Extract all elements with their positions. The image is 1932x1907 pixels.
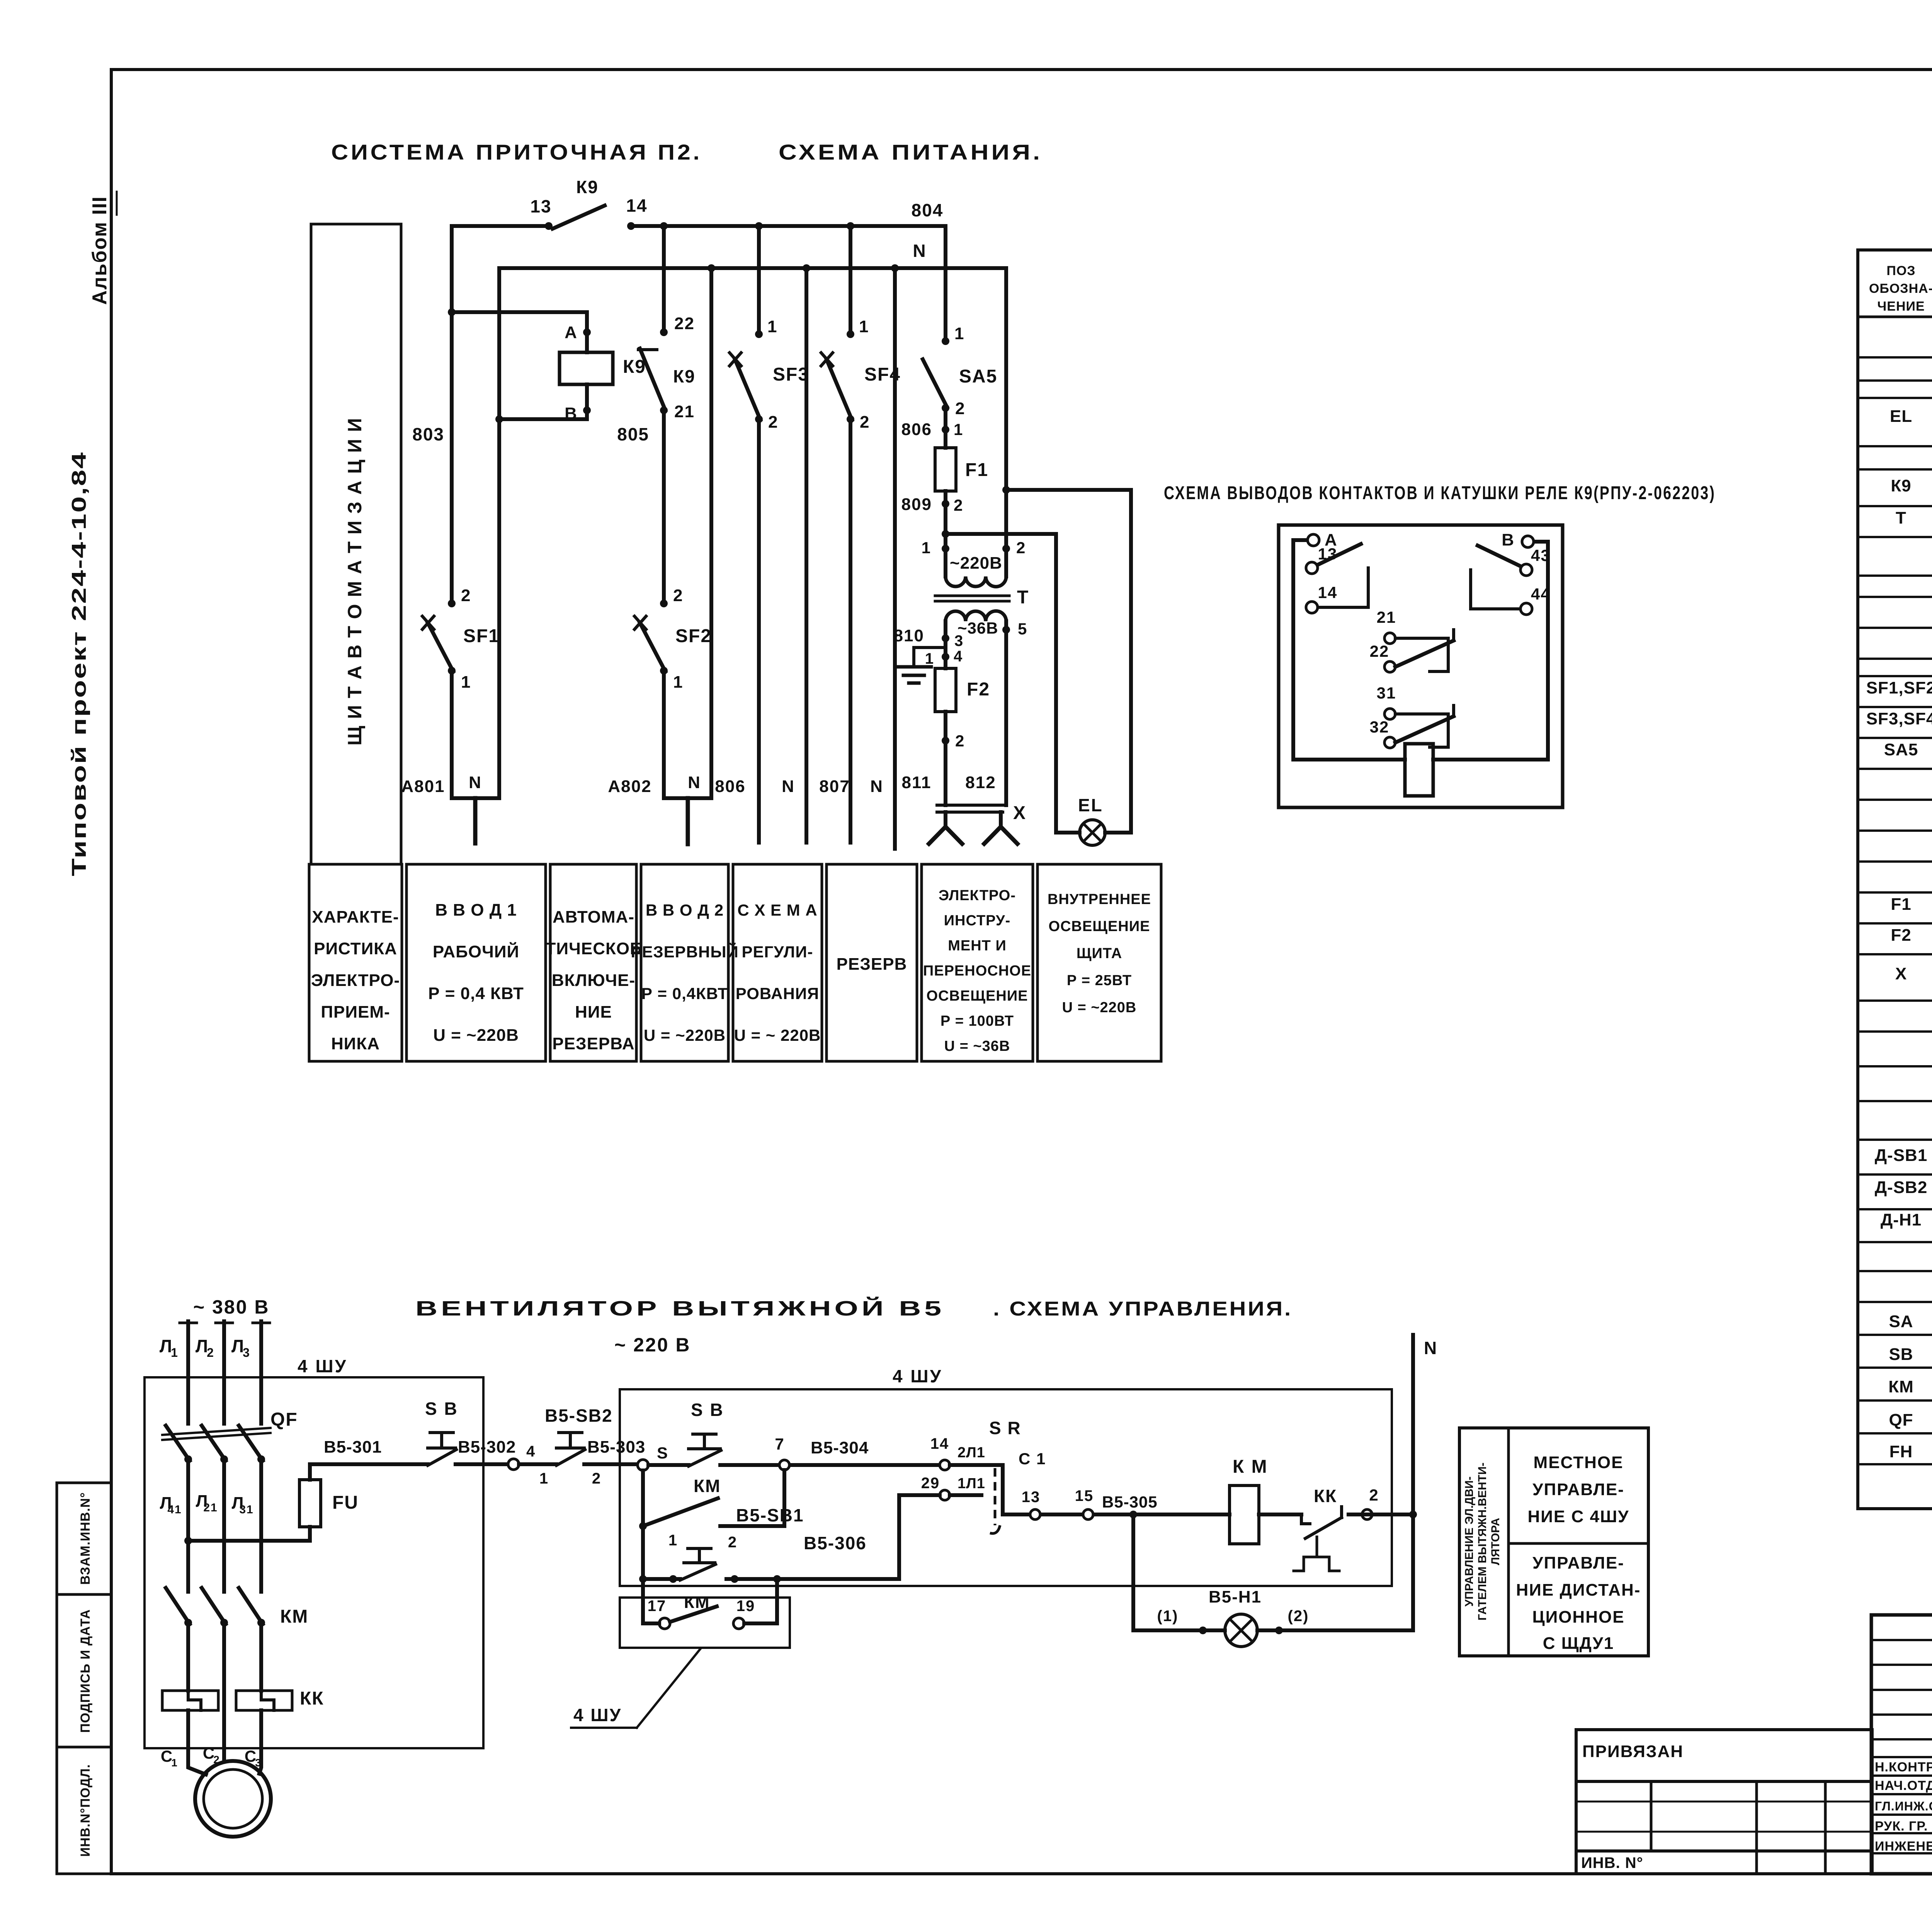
socket X left prong bbox=[944, 812, 947, 827]
svg-text:Типовой проект 224-4-10,84: Типовой проект 224-4-10,84 bbox=[68, 451, 90, 876]
svg-text:РАБОЧИЙ: РАБОЧИЙ bbox=[433, 942, 519, 961]
wire phase L1 top tick bbox=[180, 1322, 197, 1324]
svg-text:2: 2 bbox=[673, 586, 683, 605]
small box KM17-19 bbox=[620, 1598, 790, 1648]
svg-text:ИНСТРУ-: ИНСТРУ- bbox=[944, 913, 1011, 929]
node T primary 2 bbox=[1002, 545, 1010, 552]
wire SA5 to F1 bbox=[944, 408, 947, 448]
stub circuit1 drop bbox=[473, 798, 478, 843]
svg-text:ВЗАМ.ИНВ.N°: ВЗАМ.ИНВ.N° bbox=[78, 1492, 93, 1585]
wire K9 coil feed bbox=[452, 312, 587, 352]
svg-text:21: 21 bbox=[1377, 608, 1396, 626]
svg-text:К М: К М bbox=[1233, 1457, 1268, 1477]
svg-text:41: 41 bbox=[167, 1503, 182, 1516]
svg-text:N: N bbox=[688, 773, 701, 792]
svg-text:ПРИВЯЗАН: ПРИВЯЗАН bbox=[1582, 1742, 1684, 1761]
wire coil to KK bbox=[1259, 1513, 1301, 1516]
svg-text:806: 806 bbox=[901, 420, 932, 439]
svg-text:УПРАВЛЕ-: УПРАВЛЕ- bbox=[1532, 1553, 1624, 1572]
svg-text:МЕСТНОЕ: МЕСТНОЕ bbox=[1534, 1453, 1624, 1472]
svg-text:В5-306: В5-306 bbox=[804, 1533, 867, 1553]
terminal 43 bbox=[1520, 564, 1532, 576]
svg-text:Щ И Т А В Т О М А Т И З А Ц: Щ И Т А В Т О М А Т И З А Ц И И bbox=[344, 417, 366, 746]
junction top bus 805 bbox=[660, 222, 668, 230]
transformer T primary wire right bbox=[1004, 549, 1008, 576]
wire F1 to T bbox=[944, 491, 947, 549]
svg-text:806: 806 bbox=[715, 777, 745, 796]
svg-text:В: В bbox=[1502, 530, 1515, 549]
svg-text:807: 807 bbox=[819, 777, 850, 796]
svg-text:1: 1 bbox=[673, 673, 683, 692]
wire SA5 upper bbox=[944, 226, 947, 341]
svg-text:С 1: С 1 bbox=[1019, 1450, 1046, 1468]
wire C2 drop bbox=[222, 1719, 226, 1762]
svg-text:1: 1 bbox=[171, 1757, 178, 1769]
contact K9 43-44 movable bbox=[1478, 546, 1521, 566]
contact SF4 arm bbox=[827, 359, 852, 420]
terminal 21 bbox=[1384, 633, 1395, 644]
svg-text:РУК. ГР.: РУК. ГР. bbox=[1875, 1819, 1928, 1834]
socket X right prong bbox=[999, 812, 1003, 827]
svg-text:В5-SВ2: В5-SВ2 bbox=[545, 1406, 613, 1426]
thermal contact KK step bbox=[1301, 1514, 1310, 1524]
svg-text:РЕЗЕРВ: РЕЗЕРВ bbox=[837, 955, 907, 974]
svg-text:SА: SА bbox=[1889, 1312, 1913, 1331]
terminal 13 bbox=[1306, 562, 1318, 574]
wire ground branch bbox=[914, 648, 946, 665]
contact SA5 arm bbox=[923, 359, 947, 407]
wire K9 coil return bbox=[499, 384, 587, 419]
wire SF4 lower bbox=[849, 419, 852, 843]
svg-text:С ЩДУ1: С ЩДУ1 bbox=[1543, 1634, 1614, 1653]
wire lamp right drop bbox=[1006, 490, 1131, 833]
svg-text:Т: Т bbox=[1896, 508, 1906, 527]
svg-text:SA5: SA5 bbox=[959, 366, 997, 387]
parts table header line bbox=[1858, 316, 1932, 318]
wire line B bbox=[1003, 1513, 1230, 1516]
lamp EL bbox=[1080, 820, 1105, 845]
svg-text:SВ: SВ bbox=[1889, 1345, 1913, 1364]
svg-text:811: 811 bbox=[902, 773, 932, 792]
characteristics cell 1 bbox=[309, 864, 402, 1061]
svg-text:13: 13 bbox=[1022, 1489, 1041, 1506]
svg-text:АВТОМА-: АВТОМА- bbox=[553, 908, 634, 926]
wire 17 stub bbox=[643, 1621, 659, 1625]
svg-text:1: 1 bbox=[954, 420, 963, 439]
svg-text:В5-303: В5-303 bbox=[587, 1438, 645, 1457]
svg-text:. СХЕМА УПРАВЛЕНИЯ.: . СХЕМА УПРАВЛЕНИЯ. bbox=[993, 1298, 1293, 1320]
svg-text:Р = 100ВТ: Р = 100ВТ bbox=[940, 1013, 1014, 1029]
svg-text:А801: А801 bbox=[401, 777, 445, 796]
svg-text:ТИЧЕСКОЕ: ТИЧЕСКОЕ bbox=[546, 939, 642, 958]
thermal relay KK heater 1 bbox=[162, 1691, 218, 1710]
wire top bus left segment bbox=[452, 224, 549, 228]
enclosure box ШУ power bbox=[145, 1377, 483, 1748]
svg-text:ЧЕНИЕ: ЧЕНИЕ bbox=[1877, 299, 1925, 314]
svg-text:УПРАВЛЕ-: УПРАВЛЕ- bbox=[1532, 1480, 1624, 1499]
svg-text:U = ~ 220В: U = ~ 220В bbox=[734, 1026, 821, 1044]
svg-text:QF: QF bbox=[1889, 1411, 1913, 1429]
svg-text:НИКА: НИКА bbox=[331, 1034, 380, 1053]
svg-text:S В: S В bbox=[425, 1399, 458, 1419]
svg-text:2: 2 bbox=[1369, 1486, 1379, 1504]
svg-text:ОСВЕЩЕНИЕ: ОСВЕЩЕНИЕ bbox=[927, 988, 1028, 1004]
leader 4ШУ line bbox=[637, 1648, 701, 1728]
svg-text:А802: А802 bbox=[608, 777, 651, 796]
contactor KM arm1 bbox=[166, 1588, 190, 1624]
binding row line 1 bbox=[1576, 1780, 1872, 1783]
leader 4ШУ underline bbox=[571, 1727, 637, 1729]
svg-text:К9: К9 bbox=[576, 177, 599, 197]
wire SB start to 7 bbox=[720, 1463, 945, 1467]
svg-text:SF1: SF1 bbox=[463, 626, 500, 646]
node SF2-1 bbox=[660, 667, 668, 675]
wire B5-306 bbox=[726, 1577, 899, 1581]
node SA5-2 bbox=[942, 404, 949, 412]
wire 44 bracket bbox=[1471, 570, 1521, 609]
svg-text:РИСТИКА: РИСТИКА bbox=[314, 939, 397, 958]
wire secondary right bbox=[1004, 621, 1008, 805]
node T primary 1 bbox=[942, 545, 949, 552]
svg-text:КК: КК bbox=[300, 1688, 324, 1709]
fuse F2 bbox=[935, 668, 956, 712]
svg-text:НИЕ С 4ШУ: НИЕ С 4ШУ bbox=[1527, 1507, 1629, 1526]
svg-text:4 ШУ: 4 ШУ bbox=[893, 1366, 942, 1386]
contact SF3 cross b bbox=[730, 353, 741, 366]
relay coil K9 bbox=[560, 352, 613, 384]
wire 21 bracket bbox=[1395, 638, 1448, 671]
parts table row lines bbox=[1858, 357, 1932, 1464]
node SA5-1 bbox=[942, 337, 949, 345]
svg-text:ВКЛЮЧЕ-: ВКЛЮЧЕ- bbox=[552, 971, 635, 990]
node QF out1 bbox=[184, 1455, 192, 1463]
relay K9 coil rect bbox=[1405, 744, 1433, 796]
terminal B of K9 coil bbox=[583, 406, 591, 414]
svg-text:5: 5 bbox=[1018, 620, 1027, 638]
caption table outer bbox=[1459, 1428, 1648, 1656]
svg-text:1Л1: 1Л1 bbox=[957, 1475, 985, 1492]
terminal circle 13 bbox=[1030, 1509, 1040, 1519]
junction N bus a bbox=[707, 264, 715, 272]
left margin cell Подпись и дата bbox=[57, 1594, 111, 1747]
svg-text:31: 31 bbox=[1377, 684, 1396, 702]
transformer T secondary humps bbox=[946, 611, 1006, 621]
wire phase L2 top tick bbox=[216, 1322, 233, 1324]
contact SF2 arm bbox=[640, 623, 665, 671]
svg-text:ВНУТРЕННЕЕ: ВНУТРЕННЕЕ bbox=[1048, 891, 1151, 908]
svg-text:ЦИОННОЕ: ЦИОННОЕ bbox=[1532, 1608, 1624, 1627]
button B5-SB1 bbox=[684, 1561, 715, 1564]
svg-text:ЩИТА: ЩИТА bbox=[1077, 945, 1122, 962]
svg-text:N: N bbox=[469, 773, 482, 792]
title block name rows bbox=[1871, 1757, 1932, 1853]
node SF1-2 bbox=[448, 600, 456, 607]
stub circuit2 bbox=[664, 796, 711, 800]
svg-text:21: 21 bbox=[674, 402, 695, 421]
node 809 bbox=[942, 500, 949, 508]
contact KM aux arm bbox=[643, 1498, 718, 1526]
characteristics cell 2 bbox=[406, 864, 546, 1061]
wire 805 vertical mid bbox=[662, 410, 666, 603]
transformer T primary humps bbox=[946, 576, 1006, 587]
breaker QF arm1 bbox=[166, 1426, 190, 1461]
terminal 32 bbox=[1384, 737, 1395, 748]
svg-text:НИЕ: НИЕ bbox=[575, 1003, 612, 1021]
breaker QF arm3 bbox=[239, 1426, 263, 1461]
svg-text:U = ~220В: U = ~220В bbox=[644, 1026, 726, 1044]
wire N to T primary bbox=[1004, 268, 1008, 549]
contactor KM arm2 bbox=[202, 1588, 226, 1624]
junction N bus c bbox=[891, 264, 899, 272]
svg-text:S R: S R bbox=[989, 1418, 1021, 1438]
wire into small box bbox=[641, 1596, 645, 1623]
button SB stop bbox=[428, 1446, 456, 1450]
junction KM17 riser bbox=[773, 1575, 781, 1583]
margin note underline III bbox=[116, 192, 118, 215]
node SF4-1 bbox=[847, 330, 854, 338]
wire KK to N bbox=[1349, 1513, 1413, 1516]
panel box Щит автоматизации bbox=[311, 224, 401, 864]
svg-text:ЕL: ЕL bbox=[1890, 407, 1912, 426]
wire phase L2 low bbox=[222, 1623, 226, 1719]
svg-text:14: 14 bbox=[1318, 583, 1338, 602]
contact SF3 arm bbox=[735, 359, 760, 420]
svg-text:7: 7 bbox=[775, 1435, 784, 1453]
wire 803 vertical upper bbox=[450, 226, 454, 603]
svg-text:4: 4 bbox=[526, 1443, 536, 1460]
binding col 3 bbox=[1824, 1781, 1827, 1874]
svg-text:Альбом III: Альбом III bbox=[88, 196, 111, 305]
svg-text:4 ШУ: 4 ШУ bbox=[298, 1356, 347, 1376]
svg-text:15: 15 bbox=[1075, 1487, 1094, 1504]
wire phase L3 top tick bbox=[253, 1322, 270, 1324]
svg-text:КМ: КМ bbox=[1888, 1377, 1914, 1396]
svg-text:МЕНТ И: МЕНТ И bbox=[948, 938, 1007, 954]
svg-text:FН: FН bbox=[1889, 1442, 1913, 1461]
node SF2-2 bbox=[660, 600, 668, 607]
junction lamp right bbox=[1002, 486, 1010, 494]
svg-text:Р = 0,4КВТ: Р = 0,4КВТ bbox=[641, 984, 728, 1003]
wire N3 vertical bbox=[804, 268, 808, 843]
svg-text:Т: Т bbox=[1017, 587, 1029, 608]
binding table outer bbox=[1576, 1730, 1872, 1874]
transformer T core bbox=[935, 595, 1009, 597]
switch SR hook bbox=[990, 1525, 1000, 1533]
terminal circle 4 bbox=[508, 1459, 519, 1470]
node QF out3 bbox=[257, 1455, 265, 1463]
svg-text:44: 44 bbox=[1531, 585, 1551, 603]
svg-text:14: 14 bbox=[930, 1435, 949, 1452]
svg-text:U = ~36В: U = ~36В bbox=[944, 1038, 1010, 1054]
svg-text:2: 2 bbox=[955, 732, 965, 750]
svg-text:803: 803 bbox=[412, 424, 444, 444]
svg-text:Р = 25ВТ: Р = 25ВТ bbox=[1067, 972, 1132, 989]
svg-text:В5-SВ1: В5-SВ1 bbox=[736, 1505, 804, 1525]
terminal 17 bbox=[659, 1618, 670, 1629]
thermal element symbol bbox=[1294, 1557, 1339, 1571]
svg-text:SF3,SF4: SF3,SF4 bbox=[1866, 709, 1932, 728]
wire lamp branch horizontal left bbox=[1133, 1628, 1225, 1632]
contact K9 31-32 movable bbox=[1395, 716, 1454, 743]
contact SF4 cross a bbox=[821, 353, 833, 366]
relay K9 outline box bbox=[1279, 525, 1563, 807]
svg-text:КК: КК bbox=[1314, 1486, 1337, 1506]
terminal A bbox=[1308, 534, 1319, 546]
wire 14 bracket bbox=[1318, 568, 1368, 607]
wire 31 bracket bbox=[1395, 714, 1448, 747]
svg-text:ГАТЕЛЕМ ВЫТЯЖН.ВЕНТИ-: ГАТЕЛЕМ ВЫТЯЖН.ВЕНТИ- bbox=[1476, 1463, 1489, 1621]
wire 29 left bbox=[899, 1493, 940, 1497]
wire F2 to socket bbox=[944, 712, 947, 805]
wire 19 stub bbox=[744, 1579, 777, 1623]
svg-text:2Л1: 2Л1 bbox=[957, 1445, 985, 1461]
contactor KM arm3 bbox=[239, 1588, 263, 1624]
svg-text:Н.КОНТР.: Н.КОНТР. bbox=[1875, 1760, 1932, 1774]
contact SF1 cross a bbox=[422, 616, 434, 629]
lamp B5-H1 bbox=[1225, 1614, 1257, 1647]
svg-text:Д-Н1: Д-Н1 bbox=[1881, 1210, 1922, 1229]
terminal 31 bbox=[1384, 709, 1395, 719]
characteristics cell 3 bbox=[550, 864, 636, 1061]
wire phase L2 top bbox=[222, 1321, 226, 1424]
svg-text:13: 13 bbox=[530, 196, 551, 216]
svg-text:В В О Д 1: В В О Д 1 bbox=[435, 901, 517, 920]
wire lamp branch horizontal right bbox=[1257, 1628, 1413, 1632]
wire B5-306 riser bbox=[897, 1495, 901, 1579]
contact K9 22-21 arm bbox=[640, 348, 665, 410]
contact K9 21-22 movable bbox=[1395, 641, 1454, 667]
svg-text:В5-Н1: В5-Н1 bbox=[1209, 1587, 1262, 1606]
wire K9 left rail bbox=[1293, 540, 1405, 760]
terminal 44 bbox=[1520, 603, 1532, 615]
wire KM aux up bbox=[782, 1470, 786, 1526]
svg-text:31: 31 bbox=[239, 1503, 253, 1516]
wire FU branch bbox=[188, 1527, 310, 1541]
svg-text:SA5: SA5 bbox=[1884, 740, 1918, 759]
stub circuit1 bbox=[452, 796, 499, 800]
ground symbol bbox=[896, 665, 931, 669]
svg-text:1: 1 bbox=[925, 650, 934, 667]
wire secondary left bbox=[944, 621, 947, 668]
wire N socket vertical bbox=[893, 268, 897, 849]
svg-text:(2): (2) bbox=[1288, 1608, 1309, 1625]
node 21 bbox=[660, 406, 668, 414]
svg-text:22: 22 bbox=[674, 314, 695, 333]
svg-text:3: 3 bbox=[243, 1346, 250, 1360]
svg-text:2: 2 bbox=[954, 496, 963, 514]
junction FU tap bbox=[184, 1537, 192, 1545]
fuse F1 bbox=[935, 448, 956, 491]
contact K9 22-21 tick bbox=[638, 348, 657, 351]
svg-text:Х: Х bbox=[1895, 964, 1907, 983]
node SF3-2 bbox=[755, 415, 763, 423]
binding row line 4 bbox=[1576, 1849, 1872, 1853]
svg-text:SF1,SF2: SF1,SF2 bbox=[1866, 678, 1932, 697]
svg-text:К9: К9 bbox=[673, 366, 696, 386]
svg-text:ПРИЕМ-: ПРИЕМ- bbox=[321, 1003, 390, 1021]
button B5-SB2 bbox=[556, 1446, 584, 1450]
wire 29 right stub bbox=[950, 1493, 981, 1497]
wire lamp feed left drop bbox=[1056, 534, 1080, 833]
binding col 1 bbox=[1650, 1781, 1653, 1851]
wire C1 drop bbox=[188, 1710, 206, 1774]
wire 14 corner to line B bbox=[950, 1465, 1003, 1514]
node SB1-1 bbox=[669, 1575, 677, 1583]
svg-text:ЭЛЕКТРО-: ЭЛЕКТРО- bbox=[311, 971, 400, 990]
svg-text:N: N bbox=[782, 777, 795, 796]
svg-text:2: 2 bbox=[1016, 539, 1026, 557]
junction KM aux bbox=[639, 1522, 647, 1530]
wire B5-303 bbox=[584, 1462, 638, 1466]
title block outer bbox=[1871, 1615, 1932, 1874]
contact KM 17-19 arm bbox=[670, 1606, 717, 1622]
svg-text:ПОЗ: ПОЗ bbox=[1886, 263, 1915, 278]
svg-text:Д-SВ1: Д-SВ1 bbox=[1875, 1146, 1928, 1165]
node QF out2 bbox=[220, 1455, 228, 1463]
contactor coil KM bbox=[1230, 1485, 1259, 1544]
svg-text:ПЕРЕНОСНОЕ: ПЕРЕНОСНОЕ bbox=[923, 963, 1031, 979]
svg-text:4: 4 bbox=[954, 648, 963, 665]
svg-text:Р = 0,4 КВТ: Р = 0,4 КВТ bbox=[428, 984, 524, 1003]
svg-text:ПОДПИСЬ И ДАТА: ПОДПИСЬ И ДАТА bbox=[78, 1609, 93, 1733]
wire KM aux fixed bbox=[720, 1524, 784, 1528]
characteristics cell 5 bbox=[733, 864, 822, 1061]
title block small rows bbox=[1871, 1640, 1932, 1739]
breaker QF arm2 bbox=[202, 1426, 226, 1461]
wire phase L1 top bbox=[186, 1321, 190, 1424]
svg-text:812: 812 bbox=[965, 773, 996, 792]
svg-text:QF: QF bbox=[270, 1409, 298, 1430]
svg-text:ИНВ. N°: ИНВ. N° bbox=[1581, 1854, 1643, 1871]
terminal circle 15 bbox=[1083, 1509, 1093, 1519]
svg-text:ЭЛЕКТРО-: ЭЛЕКТРО- bbox=[939, 887, 1016, 904]
svg-text:FU: FU bbox=[332, 1492, 359, 1513]
wire lamp feed horizontal bbox=[946, 532, 1056, 536]
junction 803-coil bbox=[448, 308, 456, 316]
wire S to SB start bbox=[648, 1463, 689, 1467]
svg-text:21: 21 bbox=[203, 1501, 218, 1514]
wire K9 right rail bbox=[1433, 542, 1548, 760]
svg-text:ОСВЕЩЕНИЕ: ОСВЕЩЕНИЕ bbox=[1049, 918, 1150, 935]
transformer T primary bbox=[944, 549, 947, 576]
svg-text:F1: F1 bbox=[965, 460, 988, 480]
terminal circle 14 bbox=[940, 1460, 950, 1470]
svg-text:Д-SВ2: Д-SВ2 bbox=[1875, 1178, 1928, 1197]
svg-text:ИНВ.N°ПОДЛ.: ИНВ.N°ПОДЛ. bbox=[78, 1764, 93, 1857]
svg-text:32: 32 bbox=[1370, 718, 1389, 736]
svg-text:КМ: КМ bbox=[694, 1476, 721, 1496]
svg-text:N: N bbox=[1424, 1338, 1437, 1358]
wire N bus bbox=[499, 266, 1006, 270]
left margin cell Взам.инв.№ bbox=[57, 1483, 111, 1594]
node lamp right bbox=[1275, 1627, 1283, 1634]
svg-text:809: 809 bbox=[901, 495, 932, 514]
svg-text:В5-301: В5-301 bbox=[324, 1438, 382, 1457]
svg-text:SF3: SF3 bbox=[773, 364, 809, 385]
wire phase L2 mid bbox=[222, 1459, 226, 1592]
svg-text:29: 29 bbox=[921, 1475, 940, 1492]
svg-text:S: S bbox=[657, 1444, 668, 1462]
svg-text:РЕЗЕРВА: РЕЗЕРВА bbox=[552, 1034, 634, 1053]
parts table outer bbox=[1858, 250, 1932, 1509]
junction on N ctrl bbox=[1409, 1511, 1417, 1518]
svg-text:В5-304: В5-304 bbox=[811, 1438, 869, 1457]
thermal relay KK heater 2 bbox=[236, 1691, 292, 1710]
binding col 2 bbox=[1755, 1781, 1758, 1874]
svg-text:В В О Д 2: В В О Д 2 bbox=[646, 901, 724, 919]
svg-text:УПРАВЛЕНИЕ ЭЛ.ДВИ-: УПРАВЛЕНИЕ ЭЛ.ДВИ- bbox=[1463, 1477, 1476, 1607]
contact SF4 cross b bbox=[821, 353, 833, 366]
